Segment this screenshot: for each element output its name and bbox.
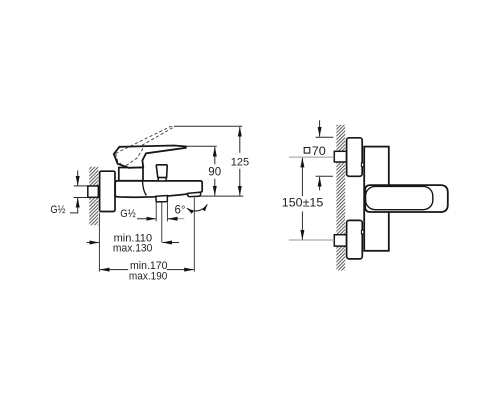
extension lines from outlet tab bbox=[156, 202, 167, 242]
inlet pipe stub G1/2 (left view) bbox=[88, 186, 99, 197]
swivel arc 6deg bbox=[187, 204, 207, 211]
leader upper stub centre (gray) bbox=[289, 156, 334, 158]
spout mouth tab bbox=[188, 192, 201, 196]
extension line from raised handle tip (125) bbox=[174, 125, 242, 127]
lever handle inner line (right view) bbox=[366, 186, 433, 209]
lower connector nipple bbox=[361, 230, 364, 234]
lever handle raised position (dashed) bbox=[116, 126, 174, 167]
upper connector nipple bbox=[361, 163, 364, 167]
svg-text:90: 90 bbox=[208, 167, 221, 179]
extension line from handle top (90) bbox=[186, 145, 217, 147]
faucet body (right view) bbox=[364, 147, 389, 251]
lower flange (right view) bbox=[347, 220, 363, 259]
svg-text:150±15: 150±15 bbox=[282, 196, 324, 210]
leader lower stub centre (gray) bbox=[289, 239, 334, 241]
lever handle outer (right view) bbox=[365, 185, 448, 212]
wall (left view, hatched) bbox=[89, 167, 98, 225]
svg-text:G½: G½ bbox=[120, 208, 136, 220]
extension line flange top (right) bbox=[316, 136, 334, 138]
extension line flange bottom (right) bbox=[316, 175, 333, 177]
arrow to flange top bbox=[319, 120, 321, 136]
dimension min.170/max.190 bbox=[100, 269, 194, 271]
upper inlet stub (right view) bbox=[334, 151, 346, 162]
upper flange 70x70 (right view) bbox=[347, 138, 363, 177]
dimension min.110/max.130 bbox=[87, 242, 179, 244]
lower inlet stub (right view) bbox=[334, 235, 346, 246]
wall flange / escutcheon (left view) bbox=[100, 171, 115, 211]
extension line from spout mouth down bbox=[193, 198, 195, 272]
diverter stem bbox=[158, 178, 166, 181]
extension line from flange face down bbox=[98, 213, 100, 272]
label square 70 bbox=[304, 148, 310, 154]
dimension 90 bbox=[214, 147, 216, 196]
wall (right view, hatched) bbox=[336, 125, 345, 271]
shower outlet tab G1/2 (under spout) bbox=[156, 196, 167, 202]
lever handle, rest position (left view) bbox=[114, 146, 186, 168]
svg-text:6°: 6° bbox=[175, 205, 186, 217]
svg-text:max.130: max.130 bbox=[113, 242, 152, 254]
cartridge housing block (left view) bbox=[119, 168, 143, 181]
diverter knob (left view) bbox=[156, 165, 167, 178]
dimension: G1/2 wall inlet (left) bbox=[70, 170, 88, 213]
arc arrowhead left bbox=[187, 208, 194, 214]
svg-text:G½: G½ bbox=[50, 204, 65, 216]
dimension 150 plus/minus 15 bbox=[301, 158, 303, 240]
G1/2 outlet dimension arrows bbox=[137, 218, 178, 220]
spout root seam bbox=[143, 181, 147, 195]
faucet body / spout (left view) bbox=[115, 181, 202, 197]
svg-text:70: 70 bbox=[312, 144, 326, 158]
arrow to flange bottom bbox=[319, 177, 321, 190]
reference line at spout mouth level bbox=[200, 195, 243, 197]
svg-text:max.190: max.190 bbox=[129, 270, 168, 282]
svg-text:125: 125 bbox=[231, 157, 249, 169]
arc arrowhead right bbox=[202, 204, 207, 211]
dimension 125 bbox=[239, 127, 241, 196]
